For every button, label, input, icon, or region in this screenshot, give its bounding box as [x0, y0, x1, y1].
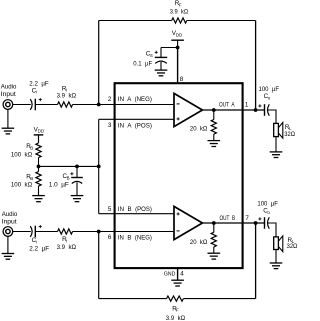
plus mark Co B: [258, 217, 261, 220]
svg-text:8: 8: [180, 76, 184, 83]
capacitor CS 0.1uF: [155, 48, 167, 71]
svg-text:3.9 kΩ: 3.9 kΩ: [166, 315, 186, 321]
resistor 20k A: [211, 110, 216, 140]
svg-text:DD: DD: [176, 32, 182, 37]
minus mark op-amp A: [177, 103, 180, 105]
svg-text:Input: Input: [2, 218, 17, 225]
speaker RL A: [274, 122, 283, 138]
svg-text:Input: Input: [1, 91, 16, 98]
node input B junction: [97, 230, 101, 234]
svg-text:DD: DD: [38, 129, 44, 134]
svg-text:Audio: Audio: [2, 211, 18, 218]
wire bias vertical: [98, 119, 100, 213]
svg-text:B: B: [30, 146, 33, 151]
wire bottom feedback left segment: [99, 298, 167, 300]
label RL B: [288, 237, 295, 244]
svg-text:S: S: [150, 53, 153, 58]
speaker RL B: [274, 236, 283, 252]
capacitor Co B 100uF: [265, 217, 270, 229]
svg-text:3.9 kΩ: 3.9 kΩ: [170, 9, 189, 16]
wire top feedback right segment: [187, 20, 256, 22]
ground CS: [155, 70, 168, 76]
svg-text:o: o: [268, 96, 271, 101]
svg-text:IN B (NEG): IN B (NEG): [118, 234, 152, 241]
op-amp U1B: [174, 206, 202, 239]
ground speaker B: [270, 263, 283, 269]
wire pin 3 to bias vertical: [99, 118, 174, 120]
plus mark Ci B: [39, 225, 42, 228]
svg-text:32Ω: 32Ω: [287, 243, 298, 250]
audio input jack B: [3, 227, 13, 237]
svg-text:Audio: Audio: [1, 84, 17, 91]
wire pin 5: [99, 213, 174, 215]
svg-text:20 kΩ: 20 kΩ: [190, 126, 208, 133]
svg-text:IN A (POS): IN A (POS): [118, 122, 152, 129]
plus mark Ci A: [39, 98, 42, 101]
svg-text:IN B (POS): IN B (POS): [118, 206, 152, 213]
pin 8 stub: [177, 48, 179, 84]
resistor 20k B: [211, 223, 216, 253]
node bias main: [97, 165, 101, 169]
svg-text:2.2 µF: 2.2 µF: [29, 245, 49, 252]
wire Co A to speaker A: [268, 110, 276, 123]
resistor RB upper 100k: [36, 135, 41, 167]
plus mark CS: [155, 51, 158, 54]
label Audio Input A: [1, 84, 17, 98]
ground jack B: [2, 254, 15, 260]
svg-text:3.9 kΩ: 3.9 kΩ: [57, 244, 77, 251]
svg-text:GND: GND: [164, 271, 175, 277]
svg-text:100 µF: 100 µF: [257, 200, 278, 207]
svg-text:100 kΩ: 100 kΩ: [11, 152, 33, 159]
ground 20k A: [208, 141, 221, 147]
wire Ri B to pin 6: [73, 231, 174, 233]
ground RB: [32, 196, 45, 202]
wire top feedback left segment: [99, 20, 172, 22]
node VDD pin8 junction: [176, 46, 180, 50]
wire right vertical feedback A: [255, 21, 257, 111]
label CB: [63, 173, 70, 180]
svg-text:7: 7: [245, 215, 249, 222]
ground CB: [71, 196, 84, 202]
node OUT B 20k junction: [212, 221, 216, 225]
wire Ci A to Ri A: [35, 104, 57, 106]
label Co B: [263, 208, 270, 215]
plus mark op-amp A: [177, 117, 180, 120]
plus mark Co A: [258, 104, 261, 107]
wire jack B to Ci: [13, 231, 31, 233]
jack B ground lead: [7, 236, 9, 253]
label Audio Input B: [2, 211, 18, 225]
svg-text:0.1 µF: 0.1 µF: [133, 61, 152, 68]
svg-text:B: B: [67, 175, 70, 180]
label Co A: [264, 93, 271, 100]
label Ri A: [62, 85, 67, 92]
svg-text:32Ω: 32Ω: [284, 131, 295, 138]
label Ci A: [32, 87, 37, 94]
ground speaker A: [270, 152, 283, 158]
label RB lower: [26, 174, 33, 181]
wire Co B to speaker B: [268, 223, 276, 237]
svg-text:20 kΩ: 20 kΩ: [190, 239, 208, 246]
node OUT B feedback junction: [254, 221, 258, 225]
svg-text:1: 1: [245, 101, 249, 108]
wire bottom feedback right segment: [183, 298, 255, 300]
wire Ri A to pin 2: [73, 104, 174, 106]
node bias CB: [75, 165, 79, 169]
svg-text:4: 4: [180, 271, 184, 278]
svg-text:IN A (NEG): IN A (NEG): [118, 96, 152, 103]
svg-text:B: B: [30, 176, 33, 181]
svg-text:100 kΩ: 100 kΩ: [11, 182, 33, 189]
svg-text:i: i: [36, 240, 37, 245]
capacitor CB 1.0uF: [71, 166, 83, 195]
IC box U1: [115, 83, 243, 268]
capacitor Ci A 2.2uF: [30, 99, 35, 111]
svg-text:100 µF: 100 µF: [259, 86, 280, 93]
svg-text:5: 5: [108, 206, 112, 213]
jack A ground lead: [7, 109, 9, 128]
svg-text:i: i: [66, 238, 67, 243]
svg-text:3.9 kΩ: 3.9 kΩ: [57, 93, 77, 100]
svg-text:F: F: [176, 308, 179, 313]
plus mark op-amp B: [177, 212, 180, 215]
wire left vertical feedback B: [98, 232, 100, 299]
resistor RF (top) 3.9k: [172, 18, 187, 23]
power VDD (top): [171, 40, 184, 47]
label RF bottom: [172, 305, 179, 312]
resistor Ri B 3.9k: [58, 229, 73, 234]
node input A junction: [97, 103, 101, 107]
op-amp U1A: [174, 93, 202, 126]
wire speaker A to ground: [275, 137, 277, 152]
wire jack A to Ci: [13, 104, 31, 106]
svg-text:6: 6: [108, 234, 112, 241]
node OUT A 20k junction: [212, 108, 216, 112]
minus mark op-amp B: [177, 230, 180, 232]
svg-text:F: F: [179, 3, 182, 8]
plus mark CB: [70, 172, 73, 175]
svg-text:i: i: [36, 90, 37, 95]
resistor RF (bottom) 3.9k: [167, 296, 184, 301]
wire speaker B to ground: [275, 250, 277, 263]
wire VDD junction to CS: [161, 47, 178, 49]
svg-text:o: o: [267, 210, 270, 215]
wire bias node: [39, 165, 99, 167]
label Ri B: [62, 236, 67, 243]
label RB upper: [26, 143, 33, 150]
wire OUT B: [202, 222, 264, 224]
wire left vertical feedback A: [98, 21, 100, 105]
capacitor Ci B 2.2uF: [30, 226, 35, 238]
label RF top: [175, 0, 182, 7]
capacitor Co A 100uF: [265, 104, 270, 116]
svg-text:3: 3: [108, 122, 112, 129]
label VDD top: [172, 30, 182, 37]
label RL A: [285, 124, 292, 131]
label CS: [146, 51, 153, 58]
svg-text:OUT A: OUT A: [219, 101, 235, 108]
wire right vertical feedback B: [255, 223, 257, 299]
ground 20k B: [208, 253, 221, 259]
node bias RB: [37, 165, 41, 169]
wire Ci B to Ri B: [35, 231, 57, 233]
audio input jack A: [3, 100, 13, 110]
node OUT A feedback junction: [254, 108, 258, 112]
pin 4 stub: [177, 268, 179, 280]
power VDD (bias): [34, 135, 44, 143]
resistor Ri A 3.9k: [58, 102, 73, 107]
wire OUT A: [202, 109, 264, 111]
svg-text:2: 2: [108, 96, 112, 103]
resistor RB lower 100k: [36, 166, 41, 195]
ground pin 4: [171, 280, 184, 286]
svg-text:OUT B: OUT B: [220, 215, 236, 222]
svg-text:1.0 µF: 1.0 µF: [49, 182, 69, 189]
ground jack A: [2, 128, 15, 134]
label VDD bias: [34, 126, 44, 133]
label Ci B: [32, 237, 37, 244]
